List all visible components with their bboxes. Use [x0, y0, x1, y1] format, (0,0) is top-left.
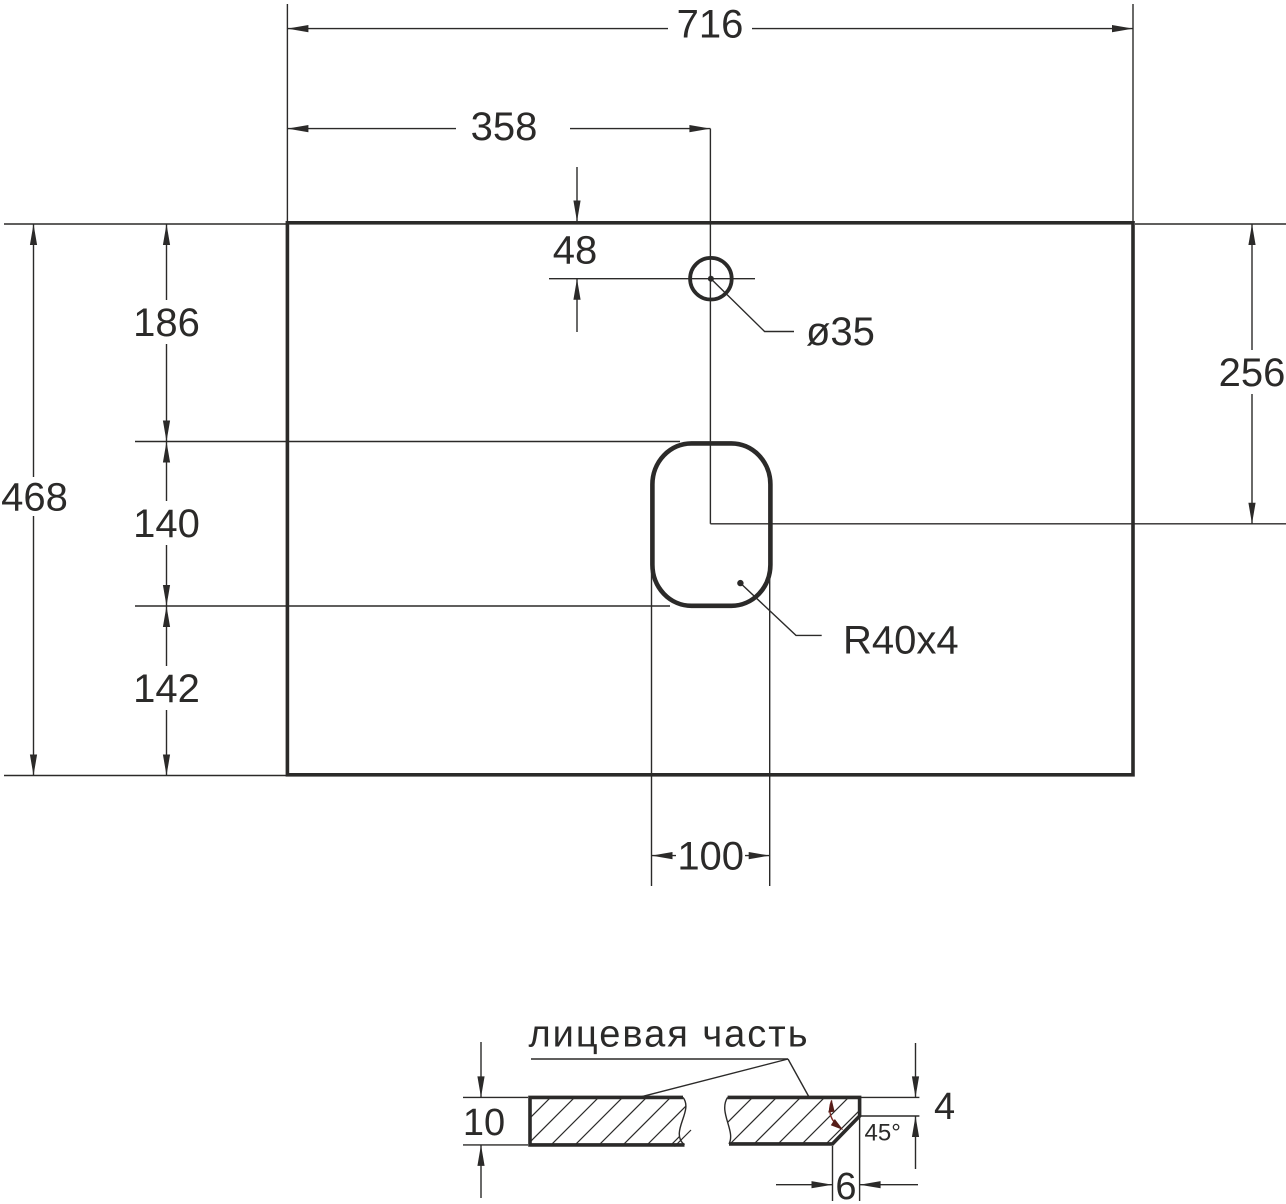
svg-text:468: 468 [1, 475, 68, 519]
svg-text:10: 10 [463, 1102, 505, 1144]
svg-text:142: 142 [133, 667, 200, 711]
svg-text:186: 186 [133, 301, 200, 345]
svg-text:4: 4 [934, 1086, 955, 1128]
svg-text:6: 6 [835, 1166, 856, 1204]
svg-text:358: 358 [471, 105, 538, 149]
svg-text:45°: 45° [865, 1119, 901, 1146]
svg-text:лицевая часть: лицевая часть [528, 1013, 809, 1055]
svg-text:48: 48 [553, 228, 598, 272]
svg-text:100: 100 [677, 834, 744, 878]
svg-text:R40x4: R40x4 [843, 618, 959, 662]
svg-text:140: 140 [133, 502, 200, 546]
svg-text:716: 716 [677, 3, 744, 47]
svg-text:ø35: ø35 [806, 310, 875, 354]
svg-text:256: 256 [1219, 351, 1286, 395]
